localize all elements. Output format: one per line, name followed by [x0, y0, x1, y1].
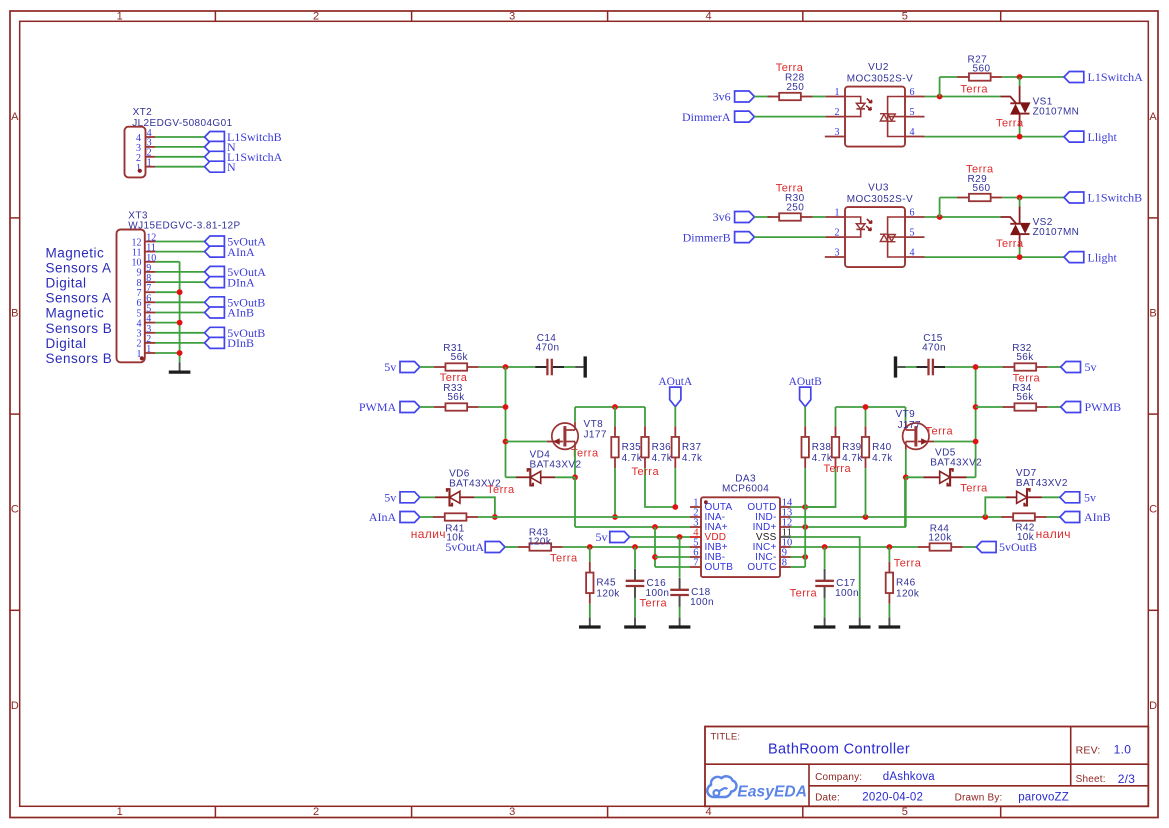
svg-text:56k: 56k [1016, 392, 1034, 403]
svg-text:3: 3 [509, 806, 515, 818]
svg-text:Sensors A: Sensors A [46, 291, 112, 306]
wire [967, 476, 976, 478]
svg-text:Sensors B: Sensors B [46, 351, 113, 366]
svg-text:560: 560 [973, 183, 991, 194]
net port 5vOutB [976, 540, 1037, 554]
resistor R36 [641, 426, 672, 468]
net port 5vOutB [205, 296, 266, 310]
svg-text:Terra: Terra [776, 62, 804, 74]
wire [865, 407, 867, 426]
wire [754, 236, 825, 238]
svg-text:MOC3052S-V: MOC3052S-V [847, 73, 913, 84]
resistor R29 [957, 174, 1002, 201]
triac VS1 Z0107MN [1010, 77, 1079, 137]
wire [420, 516, 434, 518]
svg-text:Digital: Digital [46, 276, 87, 291]
wire [865, 468, 867, 517]
wire [963, 546, 976, 548]
ground [849, 618, 871, 627]
wire [155, 146, 205, 148]
svg-text:120k: 120k [928, 533, 952, 544]
svg-text:Terra: Terra [966, 164, 994, 176]
junction [177, 320, 183, 326]
wire VT9 gate [934, 441, 976, 443]
net port 5v [384, 491, 420, 505]
svg-text:100n: 100n [690, 597, 714, 608]
svg-text:EasyEDA: EasyEDA [737, 783, 807, 800]
wire [155, 291, 179, 293]
junction [973, 364, 979, 370]
svg-text:3v6: 3v6 [713, 90, 731, 104]
svg-text:налич: налич [1036, 527, 1071, 541]
svg-text:5: 5 [902, 806, 908, 818]
svg-text:3: 3 [509, 11, 515, 23]
net port DInA [205, 275, 255, 289]
svg-text:VU2: VU2 [868, 62, 889, 73]
DA3 pin 11 VSS [756, 528, 792, 544]
svg-text:Terra: Terra [926, 426, 954, 438]
resistor R37 [672, 426, 703, 468]
wire [564, 366, 575, 368]
wire [674, 468, 676, 507]
wire ground bus [179, 262, 181, 363]
resistor R40 [862, 426, 893, 468]
junction [503, 364, 509, 370]
wire [1047, 516, 1060, 518]
XT3 pin 5 [137, 304, 156, 320]
junction [973, 404, 979, 410]
capacitor C17 [815, 569, 859, 599]
ground [879, 618, 901, 627]
wire [791, 477, 906, 527]
wire [679, 537, 681, 578]
XT3 pin 6 [137, 293, 156, 309]
svg-text:BAT43XV2: BAT43XV2 [1016, 478, 1068, 489]
resistor R27 [957, 55, 1002, 81]
wire [1048, 406, 1061, 408]
wire [505, 546, 518, 548]
wire [804, 407, 806, 427]
resistor R38 [802, 426, 833, 468]
ground [579, 618, 601, 627]
DA3 pin 6 INB- [690, 548, 725, 564]
svg-text:R35: R35 [622, 442, 642, 453]
wire [155, 136, 205, 138]
wire [1048, 366, 1061, 368]
wire [155, 342, 204, 344]
wire [905, 407, 907, 422]
junction [822, 544, 828, 550]
VU3 pin 1 stub [825, 216, 845, 218]
XT3 pin 7 [137, 283, 156, 299]
wire [925, 256, 1065, 258]
ground [669, 618, 691, 627]
svg-text:1: 1 [146, 344, 151, 355]
wire net column [654, 527, 656, 567]
junction [863, 404, 869, 410]
svg-text:2020-04-02: 2020-04-02 [862, 791, 923, 803]
wire [1042, 496, 1060, 498]
svg-text:Terra: Terra [824, 463, 852, 475]
net port AInA [205, 245, 255, 259]
wire [906, 476, 924, 478]
svg-text:Terra: Terra [996, 118, 1024, 130]
op-amp DA3 MCP6004 [701, 473, 780, 577]
net port 5vOutA [445, 540, 505, 554]
capacitor C15 [916, 333, 946, 375]
svg-text:OUTC: OUTC [747, 562, 776, 573]
svg-text:2: 2 [313, 806, 319, 818]
XT3 pin 8 [137, 273, 156, 289]
svg-text:1: 1 [117, 806, 123, 818]
net port AOutB [789, 376, 823, 407]
svg-text:B: B [1149, 307, 1156, 319]
wire [420, 406, 434, 408]
wire net column [975, 367, 977, 477]
XT3 pin 11 [132, 243, 156, 259]
svg-text:3v6: 3v6 [713, 210, 731, 224]
svg-text:AOutA: AOutA [658, 376, 693, 388]
svg-text:XT2: XT2 [133, 107, 153, 118]
VU2 pin 5 stub [905, 116, 925, 118]
ground [896, 356, 906, 377]
junction [612, 404, 618, 410]
resistor R44 [918, 523, 963, 550]
wire [155, 322, 179, 324]
junction [177, 350, 183, 356]
capacitor C18 [670, 578, 714, 608]
svg-text:Terra: Terra [487, 484, 515, 496]
wire VT8 gate [506, 441, 548, 443]
wire [905, 450, 907, 478]
svg-text:N: N [227, 160, 236, 174]
wire [940, 197, 959, 199]
transistor VT8 J177 [547, 419, 607, 450]
svg-text:4: 4 [705, 11, 711, 23]
svg-text:D: D [1149, 700, 1157, 712]
svg-text:PWMB: PWMB [1085, 400, 1122, 414]
net port Llight [1064, 250, 1117, 264]
svg-text:TITLE:: TITLE: [711, 732, 741, 743]
resistor R39 [832, 426, 863, 468]
svg-text:5v: 5v [384, 491, 396, 505]
svg-text:8: 8 [782, 558, 787, 569]
svg-text:4.7k: 4.7k [652, 453, 673, 464]
XT2 pin 1 [136, 158, 155, 174]
svg-text:7: 7 [693, 558, 698, 569]
VU2 pin 4 stub [905, 136, 925, 138]
wire [155, 332, 204, 334]
junction [903, 474, 909, 480]
svg-text:MCP6004: MCP6004 [722, 483, 769, 494]
wire [155, 301, 204, 303]
XT3 pin 9 [137, 263, 156, 279]
XT3 pin 12 [132, 233, 157, 249]
svg-text:BAT43XV2: BAT43XV2 [530, 459, 582, 470]
diode VD5 BAT43XV2 [923, 447, 982, 485]
svg-text:Terra: Terra [996, 238, 1024, 250]
DA3 pin 9 INC- [755, 548, 790, 564]
VU2 pin 3 stub [825, 136, 845, 138]
XT3 pin1 marker [140, 356, 144, 360]
svg-text:250: 250 [786, 82, 804, 93]
svg-text:DimmerA: DimmerA [682, 110, 731, 124]
wire [940, 76, 959, 78]
wire [478, 516, 690, 518]
wire [634, 547, 636, 569]
svg-text:B: B [11, 307, 18, 319]
DA3 pin 8 OUTC [747, 558, 790, 574]
wire [506, 476, 517, 478]
svg-text:Llight: Llight [1088, 130, 1118, 144]
svg-text:1.0: 1.0 [1114, 742, 1132, 756]
net port L1SwitchA [1064, 70, 1143, 84]
XT3 pin 1 [137, 344, 156, 360]
svg-text:120k: 120k [596, 589, 620, 600]
resistor R45 [586, 562, 620, 604]
junction [1017, 74, 1023, 80]
wire [479, 406, 506, 408]
svg-text:56k: 56k [451, 352, 469, 363]
net port PWMA [359, 400, 420, 414]
wire [888, 604, 890, 618]
svg-text:470n: 470n [922, 342, 946, 353]
svg-text:Z0107MN: Z0107MN [1033, 106, 1080, 117]
wire [563, 546, 690, 548]
svg-text:5vOutA: 5vOutA [445, 540, 484, 554]
VU3 pin 3 stub [825, 256, 845, 258]
wire [945, 366, 1003, 368]
optocoupler VU2 MOC3052S-V [845, 62, 913, 146]
wire [474, 497, 495, 517]
svg-text:470n: 470n [536, 342, 560, 353]
svg-text:5v: 5v [1084, 491, 1096, 505]
VU3 pin 4 stub [905, 256, 925, 258]
net port 5v [596, 530, 630, 544]
svg-text:Sensors A: Sensors A [46, 260, 112, 275]
svg-text:R46: R46 [896, 578, 916, 589]
net port Llight [1064, 130, 1117, 144]
svg-text:VT8: VT8 [584, 419, 604, 430]
wire [791, 546, 919, 548]
svg-text:5v: 5v [1085, 360, 1097, 374]
net port 5v [1061, 360, 1097, 374]
XT2 pin 3 [136, 138, 155, 154]
svg-text:Llight: Llight [1088, 250, 1118, 264]
svg-text:OUTB: OUTB [705, 562, 734, 573]
net port L1SwitchB [1064, 191, 1142, 205]
svg-text:J177: J177 [584, 430, 607, 441]
junction [492, 514, 498, 520]
resistor R30 [768, 193, 813, 221]
svg-text:Sheet:: Sheet: [1076, 774, 1106, 785]
diode VD7 BAT43XV2 [1006, 468, 1068, 505]
wire [155, 312, 204, 314]
svg-text:D: D [11, 700, 19, 712]
wire [614, 468, 616, 517]
VU3 pin 6 stub [905, 216, 925, 218]
junction [1017, 195, 1023, 201]
svg-text:R45: R45 [596, 578, 616, 589]
XT2 pin 4 [136, 128, 155, 144]
title block [705, 727, 1148, 807]
wire [679, 598, 681, 618]
svg-text:L1SwitchA: L1SwitchA [1088, 70, 1144, 84]
capacitor C16 [626, 569, 670, 599]
wire [1002, 76, 1064, 78]
resistor R32 [1003, 343, 1048, 371]
wire [674, 407, 676, 427]
junction [802, 504, 808, 510]
wire [155, 156, 205, 158]
wire [614, 407, 616, 426]
svg-text:5: 5 [902, 11, 908, 23]
svg-text:R40: R40 [872, 442, 892, 453]
VU2 pin 6 stub [905, 96, 925, 98]
net port 5vOutA [205, 265, 267, 279]
svg-text:Terra: Terra [790, 588, 818, 600]
DA3 pin 3 INA+ [690, 518, 728, 534]
wire [589, 604, 591, 618]
net port DimmerA [682, 110, 754, 124]
svg-text:Company:: Company: [815, 772, 862, 783]
wire [479, 366, 535, 368]
junction [587, 544, 593, 550]
svg-text:AInA: AInA [227, 245, 255, 259]
junction [177, 289, 183, 295]
resistor R41 [433, 513, 478, 543]
resistor R35 [611, 426, 642, 468]
wire top rail [836, 406, 906, 408]
svg-text:VT9: VT9 [896, 409, 916, 420]
wire [804, 468, 806, 567]
svg-text:1: 1 [117, 11, 123, 23]
junction [503, 404, 509, 410]
svg-text:R38: R38 [812, 442, 832, 453]
junction [652, 554, 658, 560]
svg-text:BathRoom Controller: BathRoom Controller [768, 742, 910, 758]
VU2 pin 2 stub [825, 116, 845, 118]
wire [420, 366, 434, 368]
svg-text:DimmerB: DimmerB [683, 230, 731, 244]
wire [589, 547, 591, 562]
wire [555, 476, 575, 478]
wire [575, 526, 690, 528]
wire [939, 198, 941, 218]
junction [652, 524, 658, 530]
wire [925, 96, 1001, 98]
wire [574, 407, 576, 422]
wire [791, 506, 836, 508]
svg-text:parovoZZ: parovoZZ [1018, 791, 1069, 803]
svg-text:Magnetic: Magnetic [46, 306, 105, 321]
XT3 pin 10 [132, 253, 157, 269]
svg-text:250: 250 [786, 202, 804, 213]
capacitor C14 [535, 333, 564, 375]
wire [835, 407, 837, 426]
resistor R31 [434, 343, 479, 371]
DA3 pin 2 INA- [690, 508, 725, 524]
connector XT3 [117, 210, 241, 362]
junction [973, 439, 979, 445]
wire [754, 216, 771, 218]
resistor R33 [434, 383, 479, 411]
wire [805, 468, 835, 507]
DA3 pin 5 INB+ [690, 538, 728, 554]
svg-text:Magnetic: Magnetic [46, 245, 105, 260]
wire top rail [575, 406, 645, 408]
triac gate VS1 [1001, 97, 1017, 104]
wire [791, 556, 806, 558]
wire [574, 450, 576, 478]
svg-text:R37: R37 [682, 442, 702, 453]
svg-text:BAT43XV2: BAT43XV2 [930, 457, 982, 468]
DA3 pin 12 IND+ [753, 518, 793, 534]
wire pin7 [655, 566, 690, 568]
wire [906, 366, 917, 368]
wire [644, 407, 646, 426]
wire [925, 136, 1065, 138]
VU3 pin 2 stub [825, 236, 845, 238]
diode VD4 BAT43XV2 [516, 449, 581, 485]
svg-text:REV:: REV: [1076, 744, 1101, 756]
wire [645, 468, 675, 507]
svg-text:5v: 5v [596, 530, 608, 544]
diode VD6 BAT43XV2 [435, 468, 501, 505]
svg-text:Sensors B: Sensors B [46, 321, 113, 336]
svg-text:C: C [11, 504, 19, 516]
svg-text:56k: 56k [1016, 352, 1034, 363]
wire [634, 587, 636, 617]
ground [575, 356, 585, 377]
wire [155, 251, 204, 253]
connector XT2 [125, 107, 233, 177]
svg-text:AOutB: AOutB [789, 376, 823, 388]
junction [863, 514, 869, 520]
wire [824, 587, 826, 617]
net port N [205, 140, 236, 154]
net port 3v6 [713, 90, 755, 104]
junction [802, 524, 808, 530]
wire [630, 536, 690, 538]
XT3 pin 3 [137, 324, 156, 340]
DA3 pin 7 OUTB [690, 558, 733, 574]
svg-text:A: A [1149, 111, 1157, 123]
DA3 pin 10 INC+ [753, 538, 793, 554]
junction [1017, 254, 1023, 260]
net port 5vOutB [205, 326, 266, 340]
wire [905, 477, 907, 527]
svg-text:Drawn By:: Drawn By: [955, 792, 1003, 803]
svg-text:налич: налич [411, 527, 446, 541]
resistor R28 [768, 73, 813, 101]
XT3 pin 2 [137, 334, 156, 350]
svg-text:1: 1 [147, 158, 152, 169]
svg-text:dAshkova: dAshkova [883, 771, 936, 783]
svg-text:4.7k: 4.7k [842, 453, 863, 464]
svg-text:Digital: Digital [46, 336, 87, 351]
wire [155, 352, 179, 354]
wire [985, 497, 1006, 517]
DA3 pin 1 OUTA [690, 498, 732, 514]
junction [677, 534, 683, 540]
transistor VT9 J177 [896, 409, 935, 450]
junction [887, 544, 893, 550]
wire [754, 116, 825, 118]
svg-text:C: C [1149, 504, 1157, 516]
net port AInB [1060, 510, 1111, 524]
svg-text:4.7k: 4.7k [872, 453, 893, 464]
